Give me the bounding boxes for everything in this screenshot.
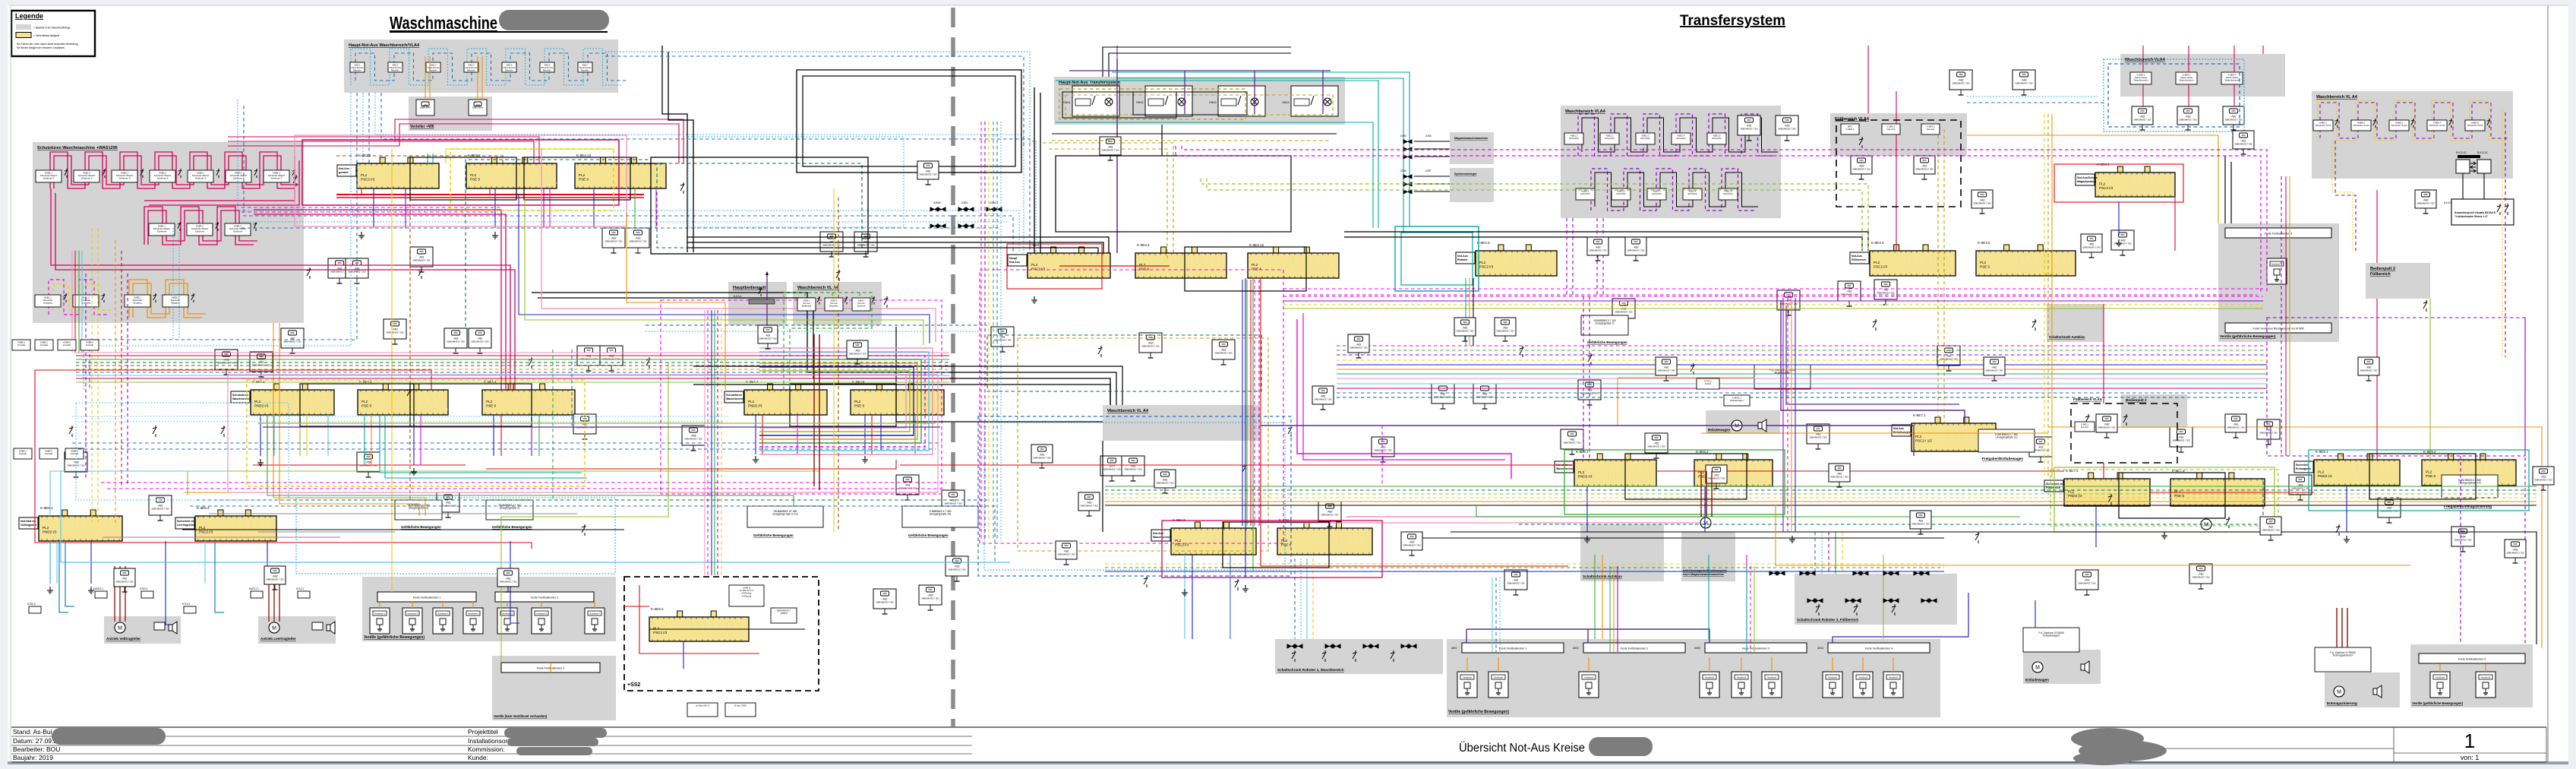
wire drop B1 lgreen [299,415,301,456]
svg-text:Waschber.: Waschber. [543,70,552,72]
contact door contact r2.3 [254,222,257,231]
svg-text:PL2: PL2 [199,526,206,530]
wire door row2 exit b [254,214,319,215]
svg-text:K-6E3.12: K-6E3.12 [1249,243,1264,247]
wire yellow long vertical [391,149,393,592]
component device -A58 #5 [215,350,238,375]
svg-text:-A61: -A61 [1462,327,1467,330]
wire black cross 3 [687,248,1098,253]
wire valve stub 1 [1466,657,1468,672]
wire door row1-row2 step b [149,160,299,205]
svg-text:Ventilinsel: Ventilinsel [1584,676,1593,679]
contact label door switch row3a.1 [35,295,61,307]
svg-text:K6E2.6: K6E2.6 [545,65,551,67]
svg-text:-A63: -A63 [2120,239,2125,242]
svg-text:PL2: PL2 [1915,435,1922,438]
svg-text:Haupt-Not-Aus: Haupt-Not-Aus [428,67,440,69]
contact auswertung contact 1 [2497,204,2502,215]
svg-text:PL2: PL2 [1252,263,1258,267]
component device -A51 #35 [1578,380,1601,405]
contact label hna pushbutton S2 [388,62,402,72]
svg-text:Schutztüren Waschmaschine +WAS: Schutztüren Waschmaschine +WAS1295 [37,146,118,150]
svg-text:Legende: Legende [15,12,43,20]
svg-text:S888.8MA53.7 300: S888.8MA53.7 300 [919,173,937,176]
wire black loop hna [1056,156,1291,232]
group Antriebsmagazin [1681,532,1735,581]
contact door contact r3b.2 [191,293,194,302]
wire bundle right left-edge v bundle [981,122,1001,541]
wire crim loop row A [302,140,619,205]
contact label right door sw 2 [2351,120,2371,131]
wire brown dash top [336,156,503,163]
contact rob3 contact 2490 [1892,604,1896,616]
component device -A61 #16 [573,414,596,439]
svg-text:-A62: -A62 [2423,199,2428,202]
redaction project blobs [504,728,607,738]
connector X pair 4 [930,224,945,228]
svg-text:PSE 6: PSE 6 [579,178,589,182]
svg-text:S888.8MA53.7 300: S888.8MA53.7 300 [1103,468,1121,471]
wire red drop B [431,370,432,390]
svg-text:Haupt-Not-Aus: Haupt-Not-Aus [390,67,402,69]
wire purple hna-t top [1069,70,1331,71]
wire steel drop C1b [65,541,74,606]
svg-text:Haupt-Not-Aus Waschbereich/VLA: Haupt-Not-Aus Waschbereich/VLA4 [349,43,420,48]
legend box [11,11,95,56]
wire drop B45 red [871,415,873,454]
arrows between B-K12 [2470,162,2476,172]
component device -A61 #29 [1432,384,1454,409]
svg-text:(Ausgangsbyte 7): (Ausgangsbyte 7) [1596,322,1615,325]
svg-text:S888.8MA53.7 300: S888.8MA53.7 300 [944,502,962,505]
contact label contactor K7G3.2 [1697,378,1719,389]
contact label fuell sw 2 [1882,124,1900,134]
svg-text:S888.8MA53.7 300: S888.8MA53.7 300 [1141,345,1160,348]
component wb top comp 1 [2132,106,2153,130]
svg-text:-A63: -A63 [927,594,933,597]
wire vio long right [1781,300,1965,423]
component device -A61 #24 [896,475,919,500]
valve valve left 5 [497,608,517,634]
svg-text:K7E2.2: K7E2.2 [140,587,148,590]
svg-text:Waschbereich: Waschbereich [2225,79,2240,82]
group Waschbereich VLA4 inner [1103,405,1260,441]
contact S4 [529,357,533,369]
safety relay K-6E4.1 [231,380,334,415]
ground g2090_705 [1584,536,1590,543]
svg-text:S888.8MA53.7 300: S888.8MA53.7 300 [1973,202,1991,205]
wire red right long [1261,278,1568,566]
wire black loop R4 pair [2119,473,2225,518]
svg-text:Ventilinsel 7: Ventilinsel 7 [589,612,600,616]
svg-text:S888.8MA53.7 300: S888.8MA53.7 300 [1456,330,1474,333]
svg-text:-A62: -A62 [2185,116,2190,119]
component wb top comp 2 [2177,106,2199,130]
group Antrieb Leertragteiler [258,616,336,644]
wire valve drop 583 [442,602,444,608]
svg-text:Kontakt: Kontakt [19,452,27,455]
svg-text:S888.8MA53.7 300: S888.8MA53.7 300 [499,581,517,584]
wire teal right top [1112,72,1410,226]
wire orange long a [273,323,425,516]
wire blue drop VT [166,541,173,625]
valve valve right 2 [2476,672,2495,698]
svg-text:K-6E5.1: K-6E5.1 [40,506,53,510]
contact S16 [1873,319,1877,331]
wire crim drop wb1 [2142,46,2144,72]
wire door left drop a [51,188,319,265]
group Haupt-Not-Aus Transfersystem [1054,77,1345,125]
contact label Gefaehrliche Bew 4 [902,506,978,527]
svg-text:-A61: -A61 [765,334,770,337]
contact door contact r3b.1 [153,293,156,302]
svg-text:Ventilinsel: Ventilinsel [1494,676,1503,679]
contact label ss2 box MC4 [687,703,718,717]
svg-text:Feste Feldbusknoten 2: Feste Feldbusknoten 2 [1621,647,1649,650]
wire drop C sky [56,541,58,584]
contact label Gefaehrliche Bew 2 [486,500,533,520]
wire brown dash vertical [409,156,411,500]
svg-text:-A61: -A61 [1409,541,1414,544]
connector magazin stub 196 [1403,147,1412,151]
svg-text:K-E3.4: K-E3.4 [734,295,741,298]
wire valve stub 7 [1832,657,1833,672]
wire pink long [1346,486,1706,517]
svg-text:S888.8MA53.7 300: S888.8MA53.7 300 [471,340,489,343]
contact label transfer door sw a1 [1564,133,1583,144]
contact label hna pushbutton S4 [464,62,478,72]
connector rob3 conn 2430 [1845,599,1861,603]
safety relay K-6E4.3 [482,380,575,415]
contact label hna pushbutton S7 [578,62,592,72]
svg-text:S888.8MA53.7 300: S888.8MA53.7 300 [759,337,777,340]
wire red dash v1 [121,251,122,486]
wire lgreen far right [2429,299,2431,460]
contact S8 [836,270,841,281]
svg-text:Waschber.: Waschber. [429,70,438,72]
wire orange long b [279,323,419,516]
wire ventile drop green2100 [1594,555,1596,639]
safety relay K-6E9.2 [2422,450,2516,486]
contact label transfer door sw b3 [1647,188,1666,200]
wire drop B3 red [500,415,502,456]
svg-text:S888.8MA53.7 300: S888.8MA53.7 300 [266,578,284,581]
wire pink L mid [541,149,936,342]
wire vio long right2 [1786,305,1959,404]
HNA station HNA3 [1209,86,1265,116]
wire yellow v long mid [833,188,835,532]
svg-text:S888.8MA53.7 300: S888.8MA53.7 300 [1321,514,1339,517]
wire feldbus3 drop [550,663,551,672]
svg-text:Haupt-Not-Aus Transfersystem: Haupt-Not-Aus Transfersystem [1059,81,1120,85]
wire rob3 feed green [1835,532,1836,574]
svg-text:PL2: PL2 [361,400,368,403]
svg-text:K-6E5.2: K-6E5.2 [197,506,210,510]
component device -A63 #56 [919,585,942,610]
svg-text:Füllbereich: Füllbereich [2370,272,2391,277]
svg-text:-A61: -A61 [2512,549,2518,552]
svg-text:Gefährliche Bewegungen: Gefährliche Bewegungen [908,533,949,537]
wire black loop R5 pair [1223,522,1329,568]
component device2 -A61 #12 [1401,532,1422,555]
svg-text:M: M [118,626,122,631]
wire lgreen dash big right 1 [1201,179,1868,251]
motor M-7E2.1 [115,622,125,633]
svg-text:-A61: -A61 [2240,140,2246,143]
wire mag dash loop right [980,270,1283,543]
svg-text:S888.8MA53.7 300: S888.8MA53.7 300 [1589,249,1607,252]
wire magazin stub w 186 [1414,141,1450,142]
svg-text:Ventilinsel: Ventilinsel [1463,676,1472,679]
wire red bus row A 2 [336,197,644,198]
svg-text:K-6E2.12: K-6E2.12 [576,153,592,157]
svg-text:1: 1 [2464,729,2475,752]
contact S14 [1588,353,1593,365]
wire yellow dash right v2 [2505,112,2506,357]
wire bundle right bottom bundle [1105,564,1944,571]
fieldbus node feldbus node R1 [1462,643,1564,653]
svg-text:S888.8MA53.7 300: S888.8MA53.7 300 [1057,553,1075,556]
ground g1139_600 [862,456,868,463]
svg-text:PL2: PL2 [1980,261,1987,264]
wire black right frame 1 [1102,441,1103,532]
wire loop B5 mag2 [759,356,925,447]
wire navy drop mid [519,194,930,343]
wire vio drop wb 2063 [1566,218,1567,295]
svg-text:-A61: -A61 [453,337,458,340]
wire black loop hna-t inner2 [1133,92,1247,115]
component device -A61 #34 [1777,290,1800,315]
safety relay K-6E2.3 [1151,518,1256,555]
svg-text:Waschbereich: Waschbereich [726,397,744,400]
wire drop B2 blue [413,415,415,465]
svg-text:-A62: -A62 [635,237,640,240]
wire steel drop C2a [215,541,224,612]
safety relay K-6E4.5 [851,380,944,415]
svg-text:KM7L2.1: KM7L2.1 [249,587,259,590]
svg-text:K6E2.5: K6E2.5 [507,65,513,67]
svg-text:PL2: PL2 [1578,470,1585,474]
safety relay K-6E9.1 [2294,450,2400,486]
svg-text:Waschber.: Waschber. [353,70,362,72]
wire valve stub 4 [1709,657,1710,672]
wire cyan dot loop low left2 [296,498,615,574]
group Magazinwaschmaschine [1450,132,1494,164]
wire red loop K-6E3.1 [1007,244,1102,289]
component device -A61 #13 [437,492,459,517]
svg-text:-A61: -A61 [1063,550,1069,553]
svg-text:S888.8MA53.7 300: S888.8MA53.7 300 [1830,476,1848,479]
wire crim drop wb2b [2188,84,2189,106]
svg-text:-A61: -A61 [122,578,127,581]
svg-text:PL2: PL2 [1874,261,1880,264]
contact S26 [153,426,157,437]
contact S12 [1288,426,1293,437]
svg-text:K7E2.3: K7E2.3 [27,603,36,606]
wire ventile drop teal2250 [1708,555,1709,639]
component device2 -A61 #28 [917,161,939,185]
wire black link loop 540 [410,384,532,426]
contact label Gefaehrliche Bew 3 [747,506,823,527]
ground g1640_770 [1242,585,1249,592]
group Ventile gefaehrliche Bewegungen left [362,577,616,641]
contact S10 [1098,346,1103,357]
group Schaltschrank Autoklav 1 [1580,524,1664,581]
group Ventile bottom big [1447,639,1940,717]
svg-text:Waschbereich VL A4: Waschbereich VL A4 [2316,95,2358,100]
contact S27 [69,426,74,437]
wire ventile drop oran2110 [1602,555,1603,639]
wire lgreen drop mid [525,199,923,345]
svg-text:M: M [1735,424,1739,429]
safety relay K-6E3.2 [1135,243,1226,278]
safety relay K-6E3.5 [1976,241,2076,276]
component device2 -A62 #29 [847,340,868,364]
svg-text:S888.8MA53.7 300: S888.8MA53.7 300 [217,362,235,365]
svg-text:-A61: -A61 [1991,366,1997,369]
wire red right h3 [2150,492,2314,493]
svg-text:PND2 i/3: PND2 i/3 [254,404,269,408]
wire olive loop hna-t 2 [1065,95,1333,115]
wire olive dash hna b [1049,149,1167,258]
svg-text:Füllbereich: Füllbereich [1851,258,1866,261]
wire drop B2 oran [371,415,372,465]
wire bundle mid v bundle [705,310,721,575]
wire orange FU path 2 [1618,377,1754,378]
component device2 -A61 #20 [1829,464,1850,487]
wire magenta dash loop [661,300,942,494]
svg-text:Magazinwasch: Magazinwasch [2077,180,2096,183]
wire motor lead LT 2 [273,566,275,622]
contactor K7L2.2 [296,587,310,598]
connector X2B4 pair 3 [987,207,1002,211]
wire teal loop R1b [1401,233,1473,285]
svg-text:-A62: -A62 [1858,165,1864,168]
svg-text:K6E4.1: K6E4.1 [803,299,810,302]
ground g1560_775 [1182,589,1188,596]
page frame [2547,5,2549,762]
contact hbp contact [759,287,762,296]
wire magenta dash long 1 [101,482,947,483]
wire-loop transfer doors row1 [1578,114,1774,156]
wire drop A mag [549,188,551,228]
wire magazin stub w 196 [1414,148,1450,150]
wire black right mid v [2224,156,2226,223]
svg-text:K6E4.3: K6E4.3 [858,299,865,302]
wire black link loop 1040 [790,384,896,426]
safety relay K-6E8.2 [1694,450,1773,486]
svg-text:-X2B4: -X2B4 [989,201,996,204]
wire ss2 red loop [639,585,759,653]
contact door contact r1.3 [140,169,144,178]
group Hauptbedienpult [728,282,787,325]
svg-text:Auswertung mit Visualis BLVA4: Auswertung mit Visualis BLVA4 K [2454,211,2496,214]
wire yellow bus top [446,148,615,150]
wire drop B45 green [914,415,916,454]
svg-text:Ventilinsel 6: Ventilinsel 6 [536,612,547,616]
svg-text:-A61: -A61 [477,337,482,340]
ground g652_305 [492,232,498,239]
wire black cross 1 [687,237,1109,253]
wire black cross mid 2 [693,366,1122,405]
safety relay K-6E7.1 [1892,413,1996,451]
component fuell comp 1 [1851,156,1872,179]
svg-text:-A62: -A62 [272,575,277,578]
svg-text:-A62: -A62 [2104,423,2109,426]
valve valve left 6 [532,608,551,634]
svg-text:PL2: PL2 [2426,470,2432,474]
svg-text:Waschbereich VLA4: Waschbereich VLA4 [1565,109,1606,114]
wire crim drop wb3b [2233,84,2235,106]
svg-text:( Ausgangsbyte 14): ( Ausgangsbyte 14) [2458,482,2480,485]
component device -A62 #36 [1645,433,1668,458]
svg-text:Bearbeiter: BOU: Bearbeiter: BOU [13,745,60,753]
group Spritzeneinleger [1450,168,1494,202]
svg-text:PSE 6: PSE 6 [1980,265,1990,269]
svg-text:S888.8MA53.7 300: S888.8MA53.7 300 [1911,523,1930,526]
component device -A62 #26 [945,556,968,581]
contact label ss2 box C6001 [725,703,756,717]
wire blue fu drop [2035,600,2036,628]
ground g2850_700 [2161,532,2167,539]
safety relay K-6E5.1 [19,506,122,541]
svg-text:K6E2.1: K6E2.1 [355,65,361,67]
svg-text:Waschbereich VLA4: Waschbereich VLA4 [2125,58,2166,62]
svg-text:S888.8MA53.7 300: S888.8MA53.7 300 [2133,119,2151,122]
contact label left edge sw 2 [35,340,53,350]
wire cyan left loop a [84,93,351,390]
svg-text:Feste Feldbusknoten 3: Feste Feldbusknoten 3 [1742,647,1770,650]
redaction stand blob [52,728,166,745]
HNA station HNA4 [1282,86,1338,116]
svg-text:S888.8MA53.7 300: S888.8MA53.7 300 [2234,143,2252,146]
wire drop B1 cyan [273,415,275,456]
component device -A58 #11 [65,452,87,477]
contact fuell mid contact 2 [2123,414,2128,426]
svg-text:Feste Feldbusknoten 4: Feste Feldbusknoten 4 [1865,647,1893,650]
svg-text:Schutztür: Schutztür [1569,137,1579,140]
svg-text:Ventilinsel 3: Ventilinsel 3 [437,612,448,616]
safety relay K-6E2.12 [575,153,666,188]
contact label door switch row3b.2 [163,295,188,307]
connector rob1 conn 1845 [1401,644,1416,648]
connector magazin stub 186 [1403,140,1412,144]
wire cyan cross c [241,221,1007,223]
wire blue dash right top [1967,102,2104,103]
svg-text:K-6E7.1: K-6E7.1 [1913,413,1926,417]
connector rob3 conn 2480 [1883,599,1899,603]
wire blue loop wb top [2108,64,2240,127]
svg-text:Haupt-Not-Aus: Haupt-Not-Aus [579,67,592,69]
wire black link loop 690 [524,157,630,200]
valve valve rueck [2267,258,2287,284]
svg-text:S888.8MA53.7 300: S888.8MA53.7 300 [605,240,623,243]
contact S11 [1242,464,1247,475]
wire teal drop A1 b [432,153,434,163]
wire right comb tail left v [2335,141,2356,251]
wire-loop door contacts row2 [144,207,257,245]
wire crim fuell mid drop2 [2103,463,2104,479]
svg-text:(Ausgangsbyte 19): (Ausgangsbyte 19) [930,513,951,516]
component device -A61 #38 [1561,429,1583,454]
contact label transfer door sw b2 [1612,188,1631,200]
wire drop B2 teal [364,415,365,465]
component device2 -A61 #27 [1100,137,1121,160]
wire mag dash big right 2 [1176,146,2261,293]
contact label Freigaben Entmagazinierung [2442,475,2498,498]
wire-loop door contacts row3 yel [53,284,114,310]
svg-text:Schutztüren: Schutztüren [726,394,742,397]
